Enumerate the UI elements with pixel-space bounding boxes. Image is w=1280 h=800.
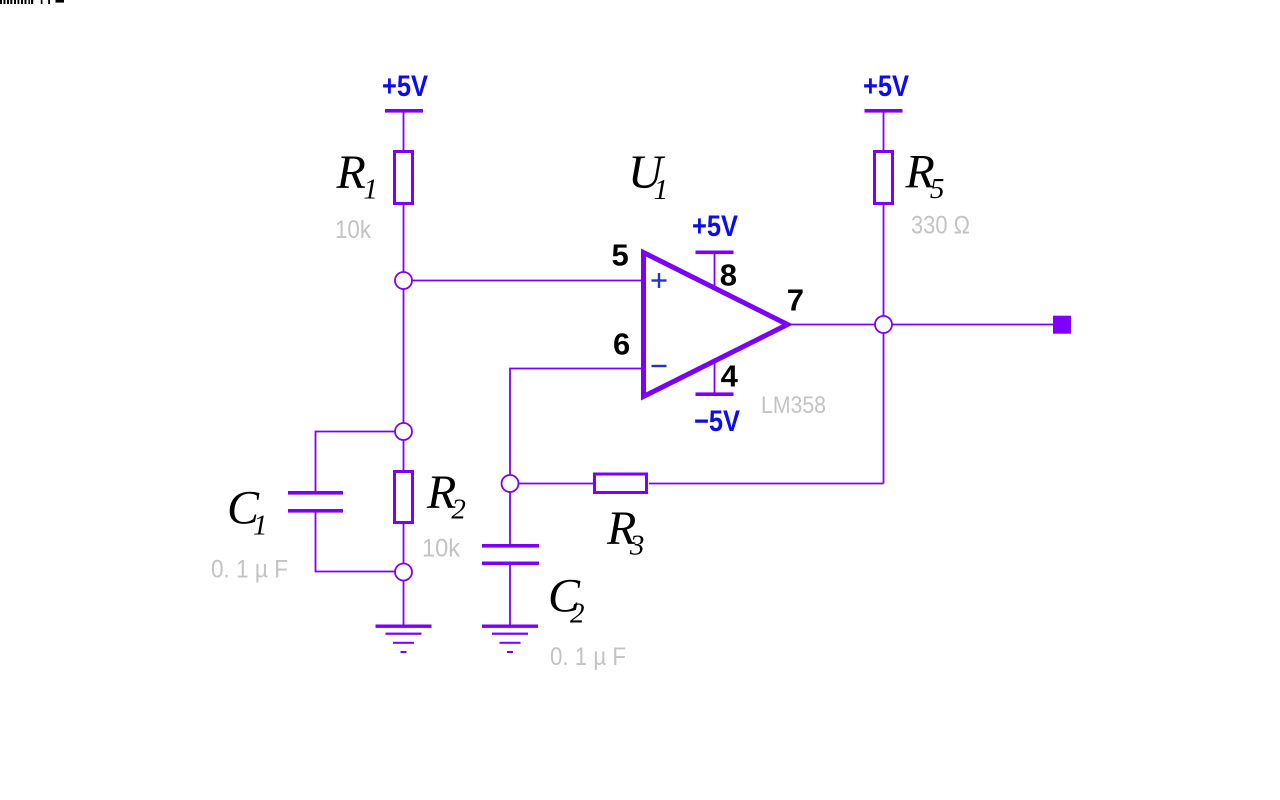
node A [395, 272, 412, 289]
wire power bar to R1 top [403, 113, 405, 152]
wire node D down to feedback line [883, 333, 885, 484]
wire node E up to inverting input [510, 369, 642, 476]
node C [395, 564, 412, 581]
svg-text:+5V: +5V [382, 70, 428, 103]
terminal square [1053, 316, 1071, 334]
power bar -5V (pin 4) [696, 392, 734, 396]
svg-text:−5V: −5V [694, 405, 740, 438]
node D [875, 316, 892, 333]
power bar +5V (R5) [865, 109, 903, 113]
svg-text:6: 6 [613, 326, 630, 361]
svg-text:330 Ω: 330 Ω [911, 212, 970, 240]
svg-text:0. 1 µ F: 0. 1 µ F [550, 643, 626, 671]
svg-text:4: 4 [721, 359, 739, 394]
wire R1 bottom to node A [403, 205, 405, 272]
wire pin 8 [714, 254, 716, 289]
wire node D to terminal [892, 324, 1054, 326]
resistor R3 [595, 474, 647, 493]
power bar +5V (pin 8) [696, 251, 734, 255]
resistor R2 [395, 472, 413, 523]
svg-text:U1: U1 [628, 146, 668, 206]
wire C1 bottom down and right to node C [316, 513, 396, 572]
wire node B to R2 top [403, 440, 405, 472]
svg-text:C2: C2 [548, 570, 585, 630]
svg-text:10k: 10k [422, 535, 460, 563]
wire R5 bottom to node D [883, 204, 885, 316]
svg-text:5: 5 [612, 238, 629, 273]
node B [395, 423, 412, 440]
svg-text:8: 8 [720, 257, 737, 292]
node E [502, 475, 519, 492]
ground (under R2) [376, 625, 432, 654]
wire node E down to C2 [509, 492, 511, 545]
wire feedback right segment (to R3) [649, 483, 884, 485]
wire node C to ground [403, 581, 405, 627]
wire pin 4 [714, 361, 716, 393]
clipped menu text fragment top-left [0, 0, 64, 4]
capacitor C1 [288, 491, 343, 513]
wire op-amp output to node D [789, 324, 875, 326]
wire power bar to R5 top [883, 113, 885, 152]
svg-text:0. 1 µ F: 0. 1 µ F [211, 556, 288, 584]
svg-text:+5V: +5V [863, 70, 909, 103]
wire R3 left to node E [519, 483, 594, 485]
op-amp U1 [644, 253, 788, 397]
resistor R5 [875, 152, 893, 204]
wire node A down to node B [403, 289, 405, 423]
svg-text:7: 7 [787, 283, 804, 318]
svg-text:LM358: LM358 [761, 392, 826, 419]
ground (under C2) [482, 625, 538, 654]
power bar +5V (R1) [385, 109, 423, 113]
wire R2 bottom to node C [403, 523, 405, 564]
wire node B left and down to C1 top [316, 432, 396, 492]
wire C2 bottom to ground [509, 565, 511, 626]
wire node A to op-amp noninverting input [412, 280, 642, 282]
svg-text:+5V: +5V [692, 210, 738, 243]
resistor R1 [395, 152, 413, 204]
svg-text:10k: 10k [335, 216, 371, 244]
capacitor C2 [482, 544, 539, 565]
